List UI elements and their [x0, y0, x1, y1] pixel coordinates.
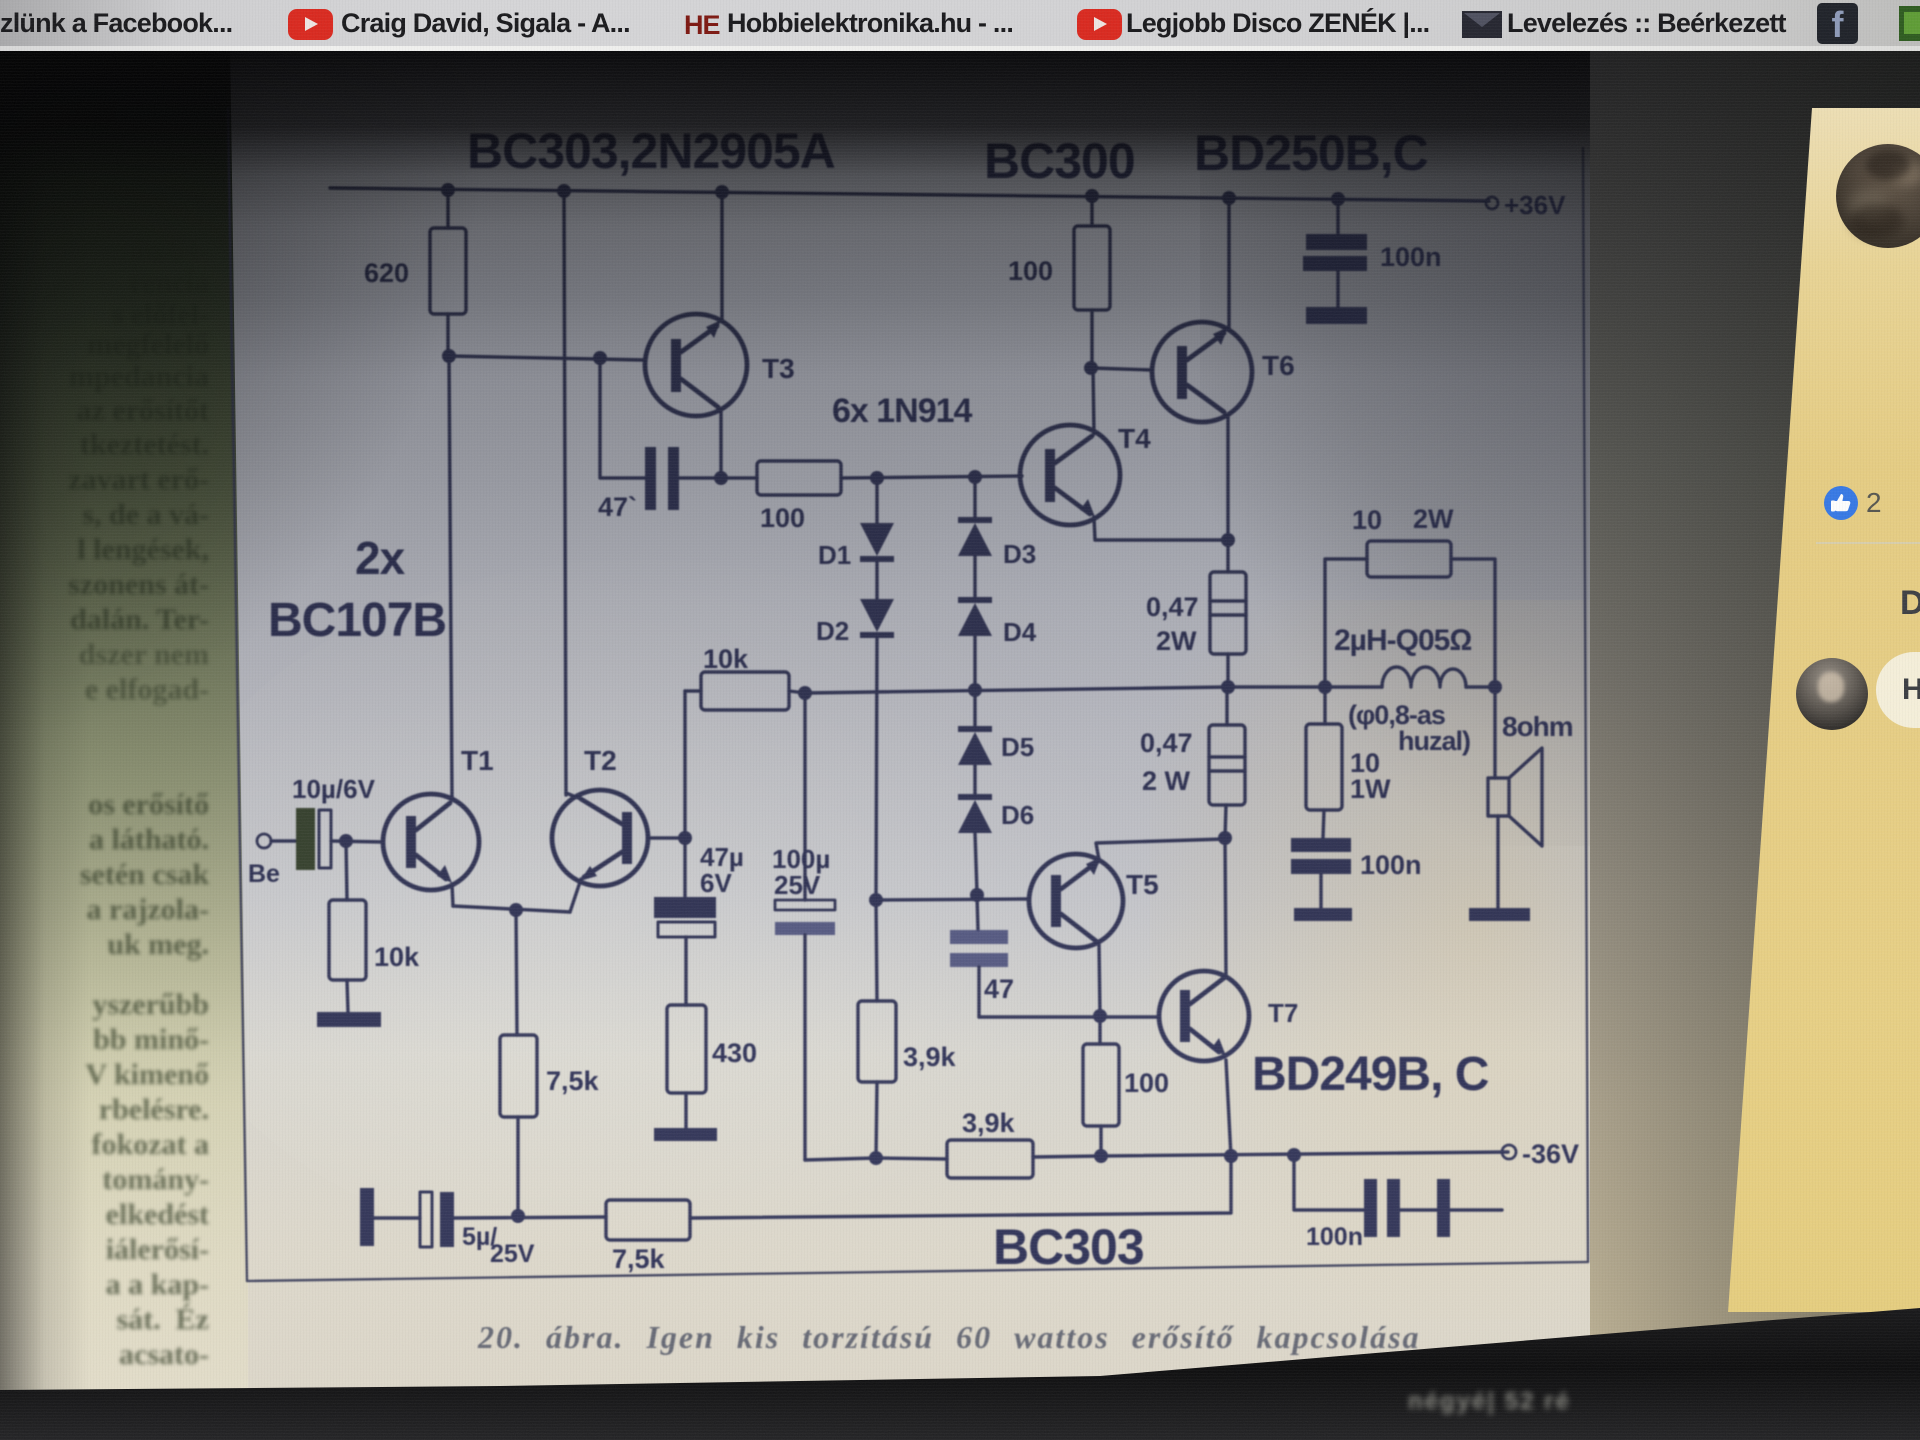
wire output to 0,47 lower — [1225, 687, 1228, 725]
input terminal Be — [257, 834, 271, 848]
wire 0,47 to output node — [1226, 654, 1229, 687]
resistor 10 2W — [1325, 504, 1495, 687]
wire 10k left lead — [685, 689, 701, 692]
transistor T3 — [645, 314, 795, 416]
input HP thick bar — [360, 1188, 374, 1246]
resistor 10 1W — [1306, 687, 1391, 838]
node output center — [1221, 680, 1235, 694]
wire 620 bottom to T3 base node — [446, 314, 449, 356]
ground below speaker — [1469, 908, 1530, 921]
node 7,5k-feedback — [511, 1209, 525, 1223]
wire D6 down to T5 base node — [975, 833, 977, 893]
capacitor 100u 25V — [772, 693, 835, 1160]
node bottom-100R — [1094, 1149, 1108, 1163]
node 10k-output-line — [798, 686, 812, 700]
resistor 10k (bias) — [701, 672, 789, 710]
wire 10k-T2 vertical — [683, 691, 686, 897]
wire 47u to 430 — [684, 937, 687, 1005]
wire bottom rail to -36V — [1101, 1152, 1508, 1156]
wire T6 emitter up — [1227, 198, 1230, 329]
wire feedback row — [454, 1217, 606, 1218]
node T4em-T6col — [1221, 533, 1235, 547]
wire T5 emitter down — [1099, 944, 1100, 1016]
ground 430 — [654, 1128, 717, 1141]
wire output line (bias row) — [805, 687, 1228, 693]
transistor T6 — [1152, 322, 1295, 422]
wire down to 47 cap — [600, 358, 645, 478]
node rail-620 — [441, 183, 455, 197]
node D3 top — [968, 470, 982, 484]
node T5base-39k — [869, 893, 883, 907]
wire 100u branch to bottom row — [805, 1158, 876, 1160]
wire T5 collector to 0,47 node — [1096, 839, 1225, 860]
wire 0,47 lower to node — [1225, 805, 1226, 838]
node 100n-bottom — [1287, 1148, 1301, 1162]
wire 430 to ground — [684, 1093, 687, 1128]
node T5em-T7base — [1093, 1009, 1107, 1023]
capacitor 47 left plate — [645, 447, 656, 510]
wire T3 base line — [449, 356, 645, 360]
wire T6 collector down — [1226, 415, 1229, 540]
wire coil to speaker node — [1466, 685, 1495, 688]
wire D2 down to T5 base node — [876, 638, 877, 900]
terminal -36V — [1502, 1145, 1516, 1159]
resistor 3,9k horizontal — [876, 1108, 1101, 1178]
wire T1 emitter down — [452, 884, 453, 906]
resistor 0,47 2W lower — [1140, 725, 1245, 805]
diode D3 — [958, 477, 1036, 569]
page border right — [1583, 148, 1588, 1262]
resistor 430 — [667, 1005, 706, 1093]
resistor 10k input — [329, 900, 366, 980]
resistor 0,47 2W upper — [1146, 572, 1246, 656]
wire 100R bottom — [1090, 310, 1093, 368]
wire 620 top — [446, 190, 449, 228]
capacitor 47 (T5) — [950, 895, 1014, 1017]
wire T2 base right — [648, 836, 685, 839]
node T4col-100R-T6base — [1084, 361, 1098, 375]
wire 100R to T4 base — [841, 476, 1022, 478]
capacitor 100n top right — [1303, 199, 1442, 324]
page border left — [228, 108, 247, 1281]
wire T4 collector up — [1093, 368, 1094, 434]
ground input — [317, 1012, 381, 1027]
wire T3 collector down — [719, 410, 722, 478]
node bottom-39kv — [869, 1151, 883, 1165]
node T2base-10k-47u — [678, 831, 692, 845]
wire T3 emitter up — [720, 192, 723, 322]
resistor 100 (T7) — [1083, 1016, 1169, 1156]
node T5base-47cap — [970, 888, 984, 902]
capacitor 100n bottom — [1294, 1155, 1502, 1251]
resistor 3,9k vertical — [858, 900, 957, 1158]
node input-10k — [339, 834, 353, 848]
wire down to 10k input — [346, 841, 347, 900]
node T3base-47cap — [593, 351, 607, 365]
node D1 top — [870, 471, 884, 485]
wire T5 base row — [876, 899, 1029, 900]
node rail-T3emitter — [715, 185, 729, 199]
diode D2 — [816, 562, 894, 646]
bottom bezel — [0, 1280, 1920, 1440]
wire emitter row — [453, 906, 570, 912]
wire 100R top — [1090, 196, 1093, 226]
capacitor 47 right plate — [668, 447, 679, 510]
capacitor 100n output — [1291, 838, 1422, 908]
right side — [1590, 46, 1920, 1406]
wire emitters to 7,5k — [516, 910, 517, 1035]
wire D4 to output line — [973, 636, 976, 690]
transistor T5 — [1029, 854, 1159, 948]
capacitor 5u/25V — [420, 1192, 535, 1268]
resistor 7,5k horizontal — [606, 1200, 690, 1240]
diode D4 — [958, 556, 1037, 647]
wire 10k right lead — [789, 691, 805, 693]
node T7em-bottom — [1224, 1149, 1238, 1163]
tab bar — [0, 0, 1920, 46]
wire cap to T1 — [331, 841, 383, 842]
wire feedback long — [690, 1157, 1231, 1218]
diode D1 — [818, 478, 894, 570]
node emitters-7,5k — [509, 903, 523, 917]
wire T4 emitter to node — [1094, 517, 1228, 540]
wire +36V top rail — [330, 188, 1489, 201]
page border bottom — [247, 1262, 1588, 1281]
wire 10k to ground — [347, 980, 348, 1012]
transistor T2 (mirrored) — [552, 745, 648, 886]
node rail-100R — [1085, 189, 1099, 203]
wire T1 collector vertical — [449, 356, 452, 797]
node rail-T2col — [557, 184, 571, 198]
wire output to coil — [1228, 685, 1382, 688]
capacitor 10u/6V — [292, 774, 376, 870]
resistor 100 (T3-T4) — [757, 461, 841, 495]
node output line D-chain — [968, 683, 982, 697]
wire T7 emitter down — [1226, 1060, 1231, 1157]
capacitor 47u 6V — [654, 842, 744, 937]
wire T1 collector up — [450, 797, 453, 800]
node coil left — [1318, 680, 1332, 694]
resistor 100 (top, T6 base) — [1074, 226, 1110, 310]
wire T2 emitter down — [570, 879, 581, 912]
transistor T1 — [383, 745, 494, 890]
resistor 620 — [430, 228, 466, 314]
wire bar to 5u cap — [374, 1216, 420, 1219]
diode D5 — [958, 690, 1034, 765]
node rail-T6emitter — [1222, 191, 1236, 205]
wire 47cap to node — [679, 476, 757, 479]
transistor T7 — [1159, 971, 1298, 1061]
node speaker top — [1488, 680, 1502, 694]
node T5col-047-T7col — [1218, 831, 1232, 845]
wire T7 collector up — [1225, 838, 1226, 976]
resistor 7,5k vertical — [500, 1035, 537, 1117]
inductor 2uH — [1382, 667, 1466, 687]
wire 47cap to T7 base row — [979, 1015, 1158, 1018]
node 620-T3base-T1col — [442, 349, 456, 363]
transistor T4 — [1020, 423, 1151, 525]
wire T2 collector up — [566, 793, 581, 799]
wire T2 collector vertical — [564, 191, 566, 795]
terminal +36V — [1486, 197, 1498, 209]
node T3col-100R — [714, 471, 728, 485]
wire input — [271, 839, 296, 842]
ground below 100n — [1294, 908, 1352, 921]
speaker 8ohm — [1488, 687, 1573, 908]
wire T6col to 0,47 — [1226, 540, 1229, 572]
wire 7,5k down — [516, 1117, 519, 1216]
wire T6 base line — [1091, 368, 1152, 370]
node rail-100n — [1331, 192, 1345, 206]
diode D6 — [958, 765, 1034, 833]
